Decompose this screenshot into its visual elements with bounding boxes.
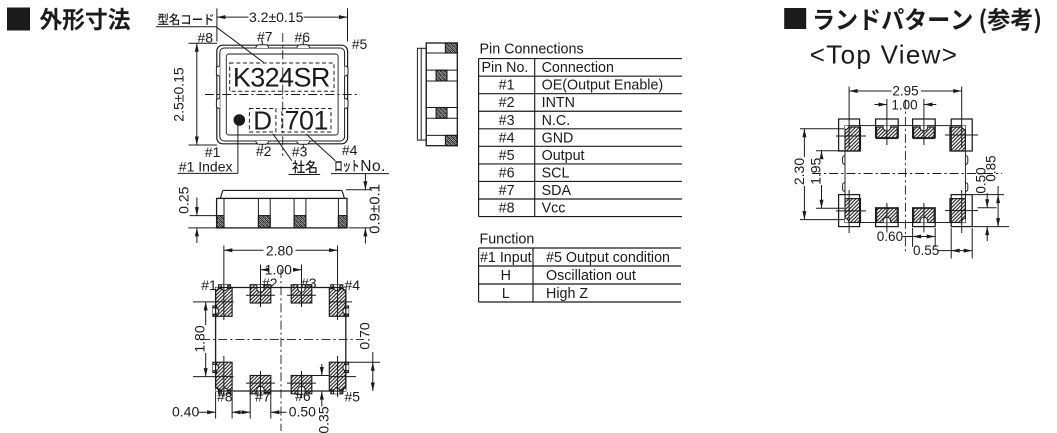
svg-text:Oscillation out: Oscillation out <box>546 268 636 284</box>
svg-text:#8: #8 <box>198 30 214 46</box>
svg-text:#6: #6 <box>499 165 515 181</box>
svg-text:0.40: 0.40 <box>172 404 199 420</box>
svg-text:0.60: 0.60 <box>877 229 903 244</box>
svg-text:Pin Connections: Pin Connections <box>480 42 584 58</box>
svg-text:#7: #7 <box>257 29 273 45</box>
svg-text:0.25: 0.25 <box>176 186 192 213</box>
svg-text:2.80: 2.80 <box>266 242 293 258</box>
svg-text:<Top View>: <Top View> <box>810 40 958 70</box>
svg-text:D: D <box>253 105 272 135</box>
svg-text:Vcc: Vcc <box>542 201 566 217</box>
svg-text:#7: #7 <box>255 389 271 405</box>
svg-text:0.85: 0.85 <box>984 155 999 181</box>
svg-text:K324SR: K324SR <box>233 63 330 93</box>
svg-text:High Z: High Z <box>546 286 588 302</box>
svg-text:GND: GND <box>542 130 574 146</box>
svg-text:#5: #5 <box>499 148 515 164</box>
svg-text:L: L <box>502 286 510 302</box>
svg-text:#5 Output condition: #5 Output condition <box>546 250 670 266</box>
svg-text:0.55: 0.55 <box>913 243 939 258</box>
svg-text:3.2±0.15: 3.2±0.15 <box>249 9 304 25</box>
svg-text:#7: #7 <box>499 183 515 199</box>
svg-text:1.00: 1.00 <box>891 97 917 112</box>
svg-text:#2: #2 <box>499 95 515 111</box>
svg-text:#3: #3 <box>292 144 308 160</box>
svg-text:#4: #4 <box>345 277 361 293</box>
svg-text:1.95: 1.95 <box>808 157 824 184</box>
svg-text:#8: #8 <box>499 201 515 217</box>
svg-text:Connection: Connection <box>542 60 614 76</box>
svg-text:#1: #1 <box>201 277 217 293</box>
svg-text:#4: #4 <box>499 130 515 146</box>
svg-text:0.35: 0.35 <box>315 406 331 433</box>
svg-text:1.80: 1.80 <box>191 325 207 352</box>
svg-text:H: H <box>501 268 511 284</box>
svg-text:0.50: 0.50 <box>289 404 316 420</box>
svg-text:INTN: INTN <box>542 95 575 111</box>
svg-text:#1 Index: #1 Index <box>179 158 233 174</box>
svg-text:#2: #2 <box>256 143 272 159</box>
svg-text:#3: #3 <box>301 275 317 291</box>
svg-text:SDA: SDA <box>542 183 572 199</box>
svg-text:#4: #4 <box>342 142 358 158</box>
svg-text:2.5±0.15: 2.5±0.15 <box>171 67 187 122</box>
svg-text:Output: Output <box>542 148 585 164</box>
svg-text:OE(Output Enable): OE(Output Enable) <box>542 78 664 94</box>
svg-text:#2: #2 <box>262 275 278 291</box>
svg-text:Function: Function <box>480 232 535 248</box>
svg-text:SCL: SCL <box>542 165 570 181</box>
svg-text:No.: No. <box>360 158 386 175</box>
svg-text:#1 Input: #1 Input <box>480 250 532 266</box>
svg-text:0.70: 0.70 <box>357 322 373 349</box>
svg-text:701: 701 <box>285 106 329 136</box>
svg-text:2.30: 2.30 <box>791 158 807 185</box>
svg-text:#3: #3 <box>499 113 515 129</box>
svg-text:#6: #6 <box>295 388 311 404</box>
svg-text:Pin No.: Pin No. <box>482 60 529 76</box>
svg-text:N.C.: N.C. <box>542 113 571 129</box>
svg-text:#6: #6 <box>295 29 311 45</box>
svg-text:#5: #5 <box>345 388 361 404</box>
svg-text:#5: #5 <box>352 36 368 52</box>
svg-text:2.95: 2.95 <box>892 84 918 99</box>
svg-text:#8: #8 <box>217 389 233 405</box>
svg-text:#1: #1 <box>499 78 515 94</box>
svg-text:0.9±0.1: 0.9±0.1 <box>366 184 383 234</box>
